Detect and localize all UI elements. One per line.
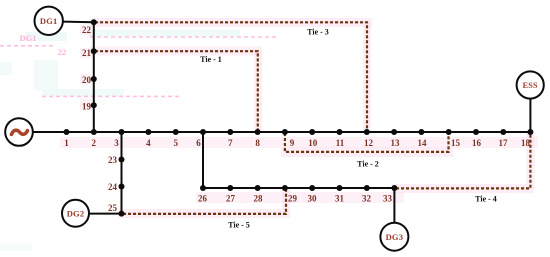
- node 18: [521, 129, 533, 148]
- pink halo Tie-4: [392, 132, 535, 193]
- svg-text:DG2: DG2: [67, 209, 85, 219]
- svg-text:3: 3: [114, 138, 119, 148]
- node 31: [335, 185, 345, 204]
- svg-text:17: 17: [499, 138, 509, 148]
- svg-text:24: 24: [108, 182, 118, 192]
- node 16: [472, 129, 482, 148]
- tie line Tie-4 (33 to 18): [396, 133, 530, 188]
- ghost pink dashed line middle: [42, 95, 182, 97]
- DG1 circle: [35, 7, 63, 35]
- pink halo Tie-5: [118, 188, 290, 218]
- label Tie - 2: [357, 160, 379, 169]
- pink halo Tie-2: [281, 147, 453, 157]
- tie line Tie-1 (21 to 8): [95, 51, 258, 131]
- svg-text:DG1: DG1: [20, 33, 37, 43]
- node 8: [255, 129, 261, 148]
- node 11: [336, 129, 345, 148]
- DG3 circle: [380, 223, 408, 251]
- label Tie - 5: [228, 221, 250, 230]
- node 4: [145, 129, 151, 148]
- wire branch 3-25 vertical: [121, 132, 123, 214]
- wire DG2 to node 25: [89, 213, 122, 215]
- node 5: [173, 129, 179, 148]
- pink halo main label row: [60, 137, 538, 148]
- pink halo band behind Tie-1: [90, 47, 262, 56]
- svg-text:Tie - 2: Tie - 2: [357, 160, 379, 169]
- node 23: [108, 155, 125, 165]
- svg-text:23: 23: [108, 155, 118, 165]
- node 22: [82, 19, 97, 35]
- pink halo band behind Tie-3: [90, 18, 372, 27]
- tie line Tie-3 (22 to 12): [95, 22, 367, 131]
- svg-text:DG3: DG3: [386, 232, 404, 242]
- svg-text:25: 25: [108, 203, 118, 213]
- wire node 18 to ESS: [529, 99, 531, 132]
- node 32: [362, 185, 372, 204]
- ghost cyan blob top-left: [0, 30, 240, 251]
- svg-text:30: 30: [308, 194, 318, 204]
- svg-text:13: 13: [391, 138, 401, 148]
- node 13: [391, 129, 401, 148]
- ghost pink text DG1: [20, 33, 37, 43]
- tie line Tie-5 (25 to 29): [123, 189, 286, 214]
- svg-text:32: 32: [362, 194, 372, 204]
- svg-text:20: 20: [82, 75, 92, 85]
- svg-text:16: 16: [472, 138, 482, 148]
- node 24: [108, 182, 125, 192]
- pink halo vertical Tie-1: [254, 51, 262, 132]
- svg-text:4: 4: [146, 138, 151, 148]
- label Tie - 1: [200, 55, 222, 64]
- node 20: [82, 75, 97, 85]
- ghost pink dashed line upper: [90, 36, 278, 38]
- label Tie - 4: [475, 195, 497, 204]
- wire lower feeder bus 26-33: [203, 187, 394, 189]
- tie line Tie-2 (9 to 15): [285, 133, 449, 152]
- node 25: [108, 203, 125, 217]
- node 6: [196, 129, 206, 148]
- pink halo branch A labels: [80, 25, 92, 109]
- node 27: [226, 185, 236, 204]
- svg-text:22: 22: [82, 25, 92, 35]
- node 10: [308, 129, 318, 148]
- svg-text:33: 33: [383, 194, 393, 204]
- svg-text:28: 28: [254, 194, 264, 204]
- node 14: [418, 129, 428, 148]
- node 2: [91, 129, 97, 148]
- node 33: [383, 185, 397, 204]
- node 30: [308, 185, 318, 204]
- svg-text:DG1: DG1: [40, 16, 58, 26]
- ESS circle: [517, 71, 544, 98]
- svg-text:12: 12: [364, 138, 374, 148]
- wire main feeder bus 1-18: [33, 131, 530, 133]
- node 9: [282, 129, 295, 148]
- node 15: [446, 129, 461, 148]
- node 12: [364, 129, 374, 148]
- svg-text:Tie - 1: Tie - 1: [200, 55, 222, 64]
- svg-text:ESS: ESS: [523, 81, 538, 90]
- wire branch 6-26 vertical: [202, 132, 204, 188]
- wire node 33 to DG3: [393, 188, 395, 223]
- ghost pink text 22: [58, 47, 67, 57]
- svg-text:7: 7: [228, 138, 233, 148]
- node 19: [82, 102, 97, 112]
- ghost pink dashed line left: [0, 45, 54, 47]
- node 21: [82, 48, 97, 58]
- svg-text:Tie - 5: Tie - 5: [228, 221, 250, 230]
- svg-text:14: 14: [418, 138, 428, 148]
- svg-text:2: 2: [92, 138, 97, 148]
- svg-text:31: 31: [335, 194, 345, 204]
- node 17: [499, 129, 509, 148]
- node 1: [64, 129, 70, 148]
- node 28: [254, 185, 264, 204]
- svg-text:29: 29: [288, 194, 298, 204]
- svg-text:1: 1: [64, 138, 69, 148]
- svg-text:11: 11: [336, 138, 345, 148]
- svg-text:15: 15: [451, 138, 461, 148]
- svg-text:10: 10: [308, 138, 318, 148]
- svg-text:19: 19: [82, 102, 92, 112]
- source generator circle: [5, 118, 33, 146]
- svg-text:21: 21: [82, 48, 92, 58]
- DG2 circle: [62, 200, 89, 227]
- svg-text:22: 22: [58, 47, 67, 57]
- label Tie - 3: [307, 28, 329, 37]
- svg-text:Tie - 4: Tie - 4: [475, 195, 497, 204]
- node 7: [227, 129, 233, 148]
- svg-text:18: 18: [521, 138, 531, 148]
- node 26: [198, 185, 208, 204]
- svg-text:26: 26: [198, 194, 208, 204]
- wire branch 2-22 vertical: [93, 22, 95, 132]
- svg-text:8: 8: [255, 138, 260, 148]
- node 29: [282, 185, 298, 204]
- wire DG1 to node 22: [63, 21, 94, 24]
- node 3: [114, 129, 124, 148]
- svg-text:Tie - 3: Tie - 3: [307, 28, 329, 37]
- svg-text:27: 27: [226, 194, 236, 204]
- svg-text:5: 5: [173, 138, 178, 148]
- pink halo lower label row: [196, 192, 404, 203]
- svg-text:9: 9: [290, 138, 295, 148]
- svg-text:6: 6: [196, 138, 201, 148]
- pink halo vertical Tie-3: [363, 22, 371, 132]
